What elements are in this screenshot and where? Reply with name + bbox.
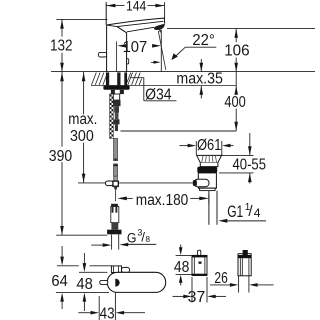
svg-text:132: 132 bbox=[50, 37, 73, 54]
svg-text:64: 64 bbox=[51, 273, 68, 290]
svg-text:144: 144 bbox=[126, 0, 146, 14]
svg-text:390: 390 bbox=[49, 148, 72, 165]
svg-text:43: 43 bbox=[100, 306, 115, 320]
svg-text:G1: G1 bbox=[227, 203, 243, 221]
svg-text:max.: max. bbox=[68, 111, 97, 128]
svg-text:G: G bbox=[127, 231, 137, 246]
svg-text:22°: 22° bbox=[192, 32, 214, 49]
svg-text:106: 106 bbox=[224, 43, 249, 60]
svg-text:max.180: max.180 bbox=[136, 192, 189, 209]
svg-text:4: 4 bbox=[254, 206, 261, 220]
svg-text:8: 8 bbox=[145, 234, 150, 244]
svg-text:48: 48 bbox=[76, 276, 92, 293]
svg-text:300: 300 bbox=[70, 128, 94, 145]
svg-text:max.35: max.35 bbox=[176, 71, 223, 88]
svg-text:37: 37 bbox=[188, 289, 206, 306]
svg-text:400: 400 bbox=[224, 94, 245, 111]
svg-text:107: 107 bbox=[123, 39, 148, 56]
svg-text:40-55: 40-55 bbox=[233, 156, 267, 173]
svg-text:Ø34: Ø34 bbox=[145, 86, 172, 103]
svg-text:26: 26 bbox=[214, 270, 227, 287]
svg-text:48: 48 bbox=[174, 259, 190, 276]
svg-text:Ø61: Ø61 bbox=[197, 137, 221, 154]
